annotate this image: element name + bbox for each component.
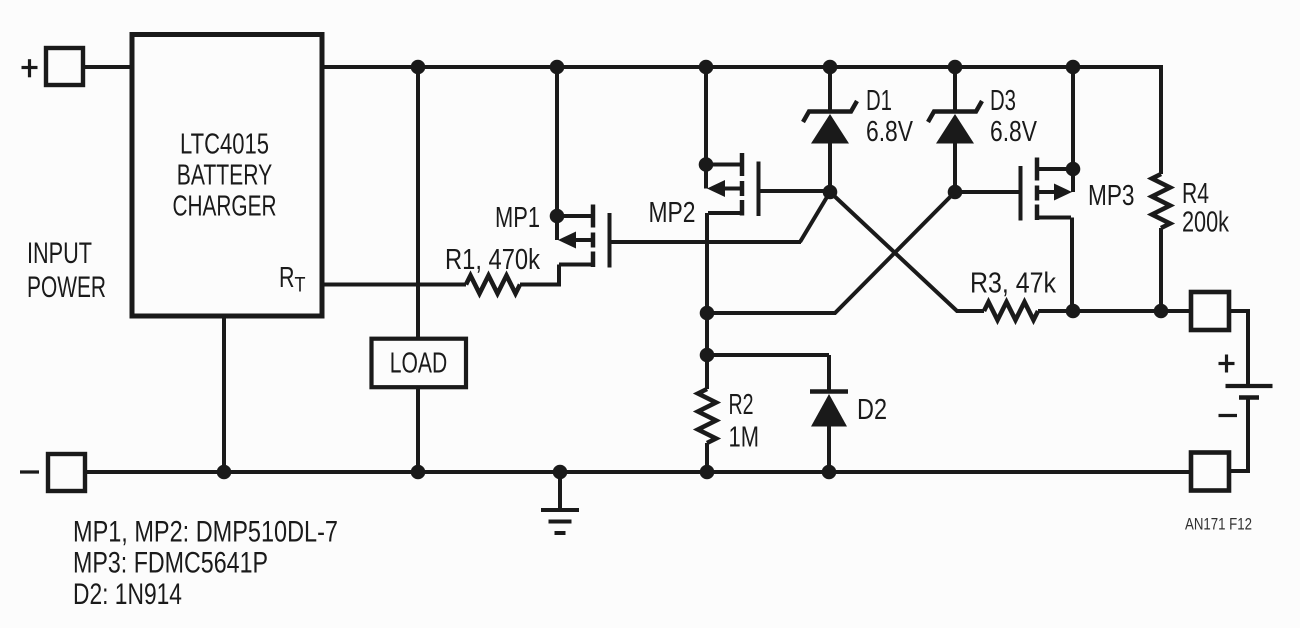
ground (541, 472, 579, 533)
svg-text:R3, 47k: R3, 47k (970, 268, 1056, 300)
battery - label (1219, 414, 1238, 417)
transistor MP1 (550, 205, 610, 268)
wire LTC bottom pin to ground rail (222, 316, 226, 472)
input + terminal (46, 48, 83, 85)
wire R1 to MP1 drain (520, 265, 559, 285)
svg-text:INPUT: INPUT (27, 237, 92, 270)
wire LOAD to bottom rail (416, 386, 420, 472)
node dot bottom rail x560 (553, 465, 568, 480)
wire R2 to bottom rail (705, 443, 709, 472)
svg-text:T: T (295, 274, 306, 297)
svg-text:R1, 470k: R1, 470k (445, 244, 540, 276)
node dot x1161 y311 (1154, 304, 1169, 319)
svg-text:POWER: POWER (27, 271, 106, 304)
wire input+ to LTC4015 (85, 65, 132, 69)
transistor MP2 (699, 153, 759, 216)
wire rail to MP3 source (1071, 67, 1075, 169)
wire MP3 drain down (1070, 218, 1074, 312)
LTC4015 box U1 (132, 35, 322, 317)
svg-text:LOAD: LOAD (390, 348, 448, 380)
svg-text:D2: D2 (857, 394, 887, 426)
wire node B diagonal to MP2 drain (707, 192, 955, 313)
node dot bottom rail x829 (822, 465, 837, 480)
svg-text:R: R (279, 262, 295, 294)
svg-text:BATTERY: BATTERY (177, 160, 273, 192)
node dot MP2 drain x707 y313 (700, 306, 715, 321)
battery + label (1219, 355, 1235, 373)
output - terminal (1191, 453, 1229, 491)
transistor MP3 (1021, 158, 1081, 221)
svg-text:R4: R4 (1182, 178, 1209, 210)
svg-text:1M: 1M (729, 422, 760, 454)
battery negative plate (1239, 395, 1259, 400)
svg-text:D1: D1 (866, 85, 892, 117)
wire R4 to output net (1159, 228, 1163, 311)
wire bottom rail (85, 470, 1192, 474)
svg-text:AN171 F12: AN171 F12 (1185, 516, 1252, 534)
wire output+ to battery (1228, 311, 1248, 384)
svg-text:6.8V: 6.8V (866, 116, 914, 148)
svg-text:R2: R2 (729, 389, 754, 421)
node dot x1073 y311 (1066, 304, 1081, 319)
resistor R4 (1152, 174, 1170, 228)
zener diode D3 (928, 67, 982, 192)
wire top rail (322, 65, 1161, 69)
node dot top rail x557 (550, 60, 565, 75)
output + terminal (1191, 292, 1229, 330)
svg-text:MP1, MP2: DMP510DL-7: MP1, MP2: DMP510DL-7 (73, 516, 338, 549)
node dot bottom rail x224 (217, 465, 232, 480)
resistor R1 (466, 276, 520, 294)
node dot top rail x1073 (1066, 60, 1081, 75)
wire rail to MP1 source (555, 67, 559, 216)
wire rail to MP2 source (704, 67, 708, 165)
svg-text:6.8V: 6.8V (990, 116, 1038, 148)
zener diode D1 (803, 67, 857, 192)
input - terminal (48, 454, 85, 491)
input - label (20, 470, 39, 473)
node dot top rail x955 (948, 60, 963, 75)
input + label (22, 59, 38, 77)
wire RT pin to R1 (322, 283, 466, 287)
svg-text:MP3: FDMC5641P: MP3: FDMC5641P (73, 547, 268, 580)
wire MP1 gate (611, 240, 801, 244)
svg-text:D3: D3 (990, 85, 1016, 117)
node dot bottom rail x707 (700, 465, 715, 480)
diode D2 (810, 355, 848, 472)
text INPUT POWER (27, 237, 106, 304)
node A dot (823, 185, 838, 200)
wire node A diagonal to R3 (830, 192, 984, 311)
wire rail to LOAD (416, 67, 420, 340)
wire MP3 gate to node B (955, 190, 1020, 194)
LOAD box (372, 339, 467, 388)
battery positive plate (1226, 384, 1273, 388)
svg-text:LTC4015: LTC4015 (180, 129, 269, 161)
resistor R2 (698, 389, 716, 443)
node dot x707 y355 (700, 348, 715, 363)
svg-text:D2: 1N914: D2: 1N914 (73, 578, 182, 611)
wire R3 to output (1038, 309, 1192, 313)
wire right rail down to R4 (1159, 65, 1163, 174)
node dot bottom rail x418 (411, 465, 426, 480)
pin label RT (279, 262, 306, 297)
node dot top rail x830 (823, 60, 838, 75)
wire node to D2 (707, 353, 829, 357)
svg-text:CHARGER: CHARGER (173, 191, 277, 223)
svg-text:MP3: MP3 (1088, 180, 1135, 212)
node dot top rail x706 (699, 60, 714, 75)
wire MP2 gate to node A (758, 189, 830, 193)
wire MP2 drain down (705, 213, 709, 389)
wire MP1 gate diagonal to node A (800, 192, 830, 242)
svg-text:MP2: MP2 (649, 197, 696, 229)
node B dot (948, 185, 963, 200)
node dot top rail x418 (411, 60, 426, 75)
svg-text:MP1: MP1 (495, 202, 540, 234)
resistor R3 (984, 302, 1038, 320)
wire battery to output- (1228, 400, 1248, 472)
svg-text:200k: 200k (1182, 207, 1229, 239)
